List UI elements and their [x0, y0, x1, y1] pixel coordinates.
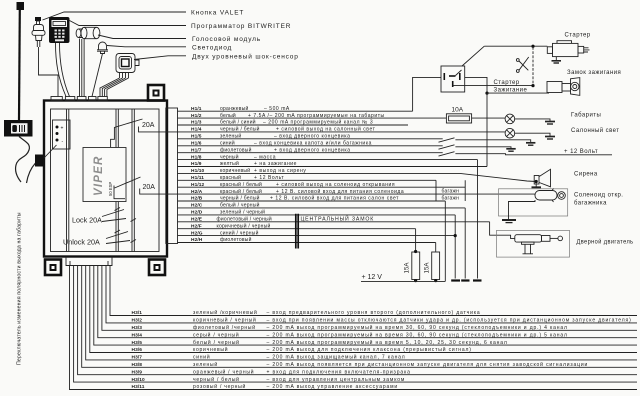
svg-text:красный / белый: красный / белый — [220, 188, 262, 195]
svg-text:– 200 mA выход программируемы: – 200 mA выход программируемый на время … — [267, 339, 508, 346]
node: fuse1 top — [414, 250, 417, 253]
cut wire (dashed) — [532, 47, 534, 85]
svg-text:H3/10: H3/10 — [132, 377, 146, 383]
svg-text:H3/8: H3/8 — [132, 362, 143, 368]
valet button — [32, 17, 45, 47]
door pin switch (H1/5) — [439, 138, 455, 142]
LED — [97, 42, 108, 54]
wire H2/E row line — [178, 221, 490, 223]
wire: starter feed line — [484, 45, 547, 47]
wire: relay starter contact line — [453, 85, 533, 87]
wire: H2/B down to +12 rail — [444, 201, 446, 281]
VIPER label plate — [83, 148, 126, 202]
node: H2/G tee — [454, 234, 457, 237]
svg-text:Стартер: Стартер — [494, 80, 520, 86]
fuse 20A no.1 callout — [111, 119, 178, 147]
scissors cut symbol — [516, 57, 528, 72]
svg-text:Кнопка VALET: Кнопка VALET — [191, 10, 244, 17]
wire H1/4 row line — [178, 131, 506, 133]
svg-text:+ вход для подключения включа: + вход для подключения включателя-призра… — [267, 369, 411, 375]
trunk solenoid cell divider — [436, 180, 465, 201]
svg-text:– вход для управления централ: – вход для управления центральным замком — [267, 377, 406, 383]
svg-text:VIPER: VIPER — [93, 155, 105, 196]
svg-text:– 500 mA: – 500 mA — [264, 106, 290, 112]
wire: solenoid to ground — [509, 200, 536, 220]
svg-text:H1/5: H1/5 — [191, 134, 202, 140]
svg-text:черный: черный — [220, 153, 239, 160]
main unit outer case — [44, 101, 167, 257]
svg-text:+ 12 В. силовой вход для пи: + 12 В. силовой вход для питания соленои… — [276, 188, 404, 195]
svg-text:Голосовой модуль: Голосовой модуль — [192, 35, 261, 43]
svg-text:H1/7: H1/7 — [191, 147, 202, 153]
svg-text:красный: красный — [220, 174, 241, 181]
wire H2/C row line — [178, 207, 466, 209]
svg-text:H3/9: H3/9 — [132, 369, 143, 375]
svg-text:– 200 mA выход появляется при: – 200 mA выход появляется при дистанцион… — [267, 361, 589, 368]
wire: side connector pigtail — [27, 163, 36, 183]
wire: H2/D to ground — [454, 215, 456, 279]
svg-text:H1/12: H1/12 — [191, 182, 205, 188]
wire: H1/5 switch to ground — [455, 140, 530, 143]
siren feed jog — [460, 173, 536, 181]
svg-text:красный / белый: красный / белый — [220, 181, 262, 188]
svg-text:Сирена: Сирена — [574, 172, 598, 178]
voice module — [76, 27, 100, 38]
ground: hood switch — [506, 149, 515, 151]
svg-text:H2/A: H2/A — [191, 189, 203, 195]
wire H3/2 — [106, 266, 637, 323]
svg-text:H2/B: H2/B — [191, 196, 203, 202]
wire: H2/E to door motor — [490, 222, 515, 239]
wire H2/D row line — [178, 214, 456, 216]
svg-text:+ на зажигание: + на зажигание — [254, 161, 297, 167]
svg-text:зеленый: зеленый — [193, 361, 218, 368]
wire: LED to H1 tab — [92, 54, 103, 97]
svg-text:Салонный свет: Салонный свет — [571, 127, 619, 134]
relay K1 — [441, 66, 465, 92]
callout line: Программатор BITWRITER — [70, 21, 187, 26]
svg-text:желтый: желтый — [220, 160, 239, 167]
wire H3/7 — [86, 266, 637, 360]
svg-text:20A: 20A — [142, 122, 155, 129]
svg-text:багажн: багажн — [442, 189, 460, 195]
wire: relay armature to starter feed — [462, 46, 484, 66]
wire H1/12 row line — [178, 186, 466, 188]
svg-text:+ 12 В. силовой вход для питан: + 12 В. силовой вход для питания салон с… — [270, 195, 399, 202]
node: fuse2 bottom — [434, 279, 437, 282]
wire: switch module pigtail — [16, 137, 30, 183]
svg-text:15A: 15A — [424, 262, 431, 274]
ground: bus 3 — [473, 279, 482, 281]
svg-text:коричневый / черный: коричневый / черный — [217, 222, 271, 229]
wire H2/H row line — [178, 242, 436, 244]
svg-text:Замок зажигания: Замок зажигания — [567, 70, 621, 76]
svg-text:багажн: багажн — [442, 196, 460, 202]
ground: door switch — [526, 143, 535, 145]
svg-text:H3/11: H3/11 — [132, 384, 145, 390]
svg-text:белый / черный: белый / черный — [220, 202, 260, 209]
wire H3/8 — [82, 266, 637, 368]
svg-text:10A: 10A — [452, 107, 464, 114]
svg-text:зеленый / черный: зеленый / черный — [220, 209, 265, 216]
svg-text:– 200 mA выход для подключени: – 200 mA выход для подключения клаксона … — [267, 346, 472, 353]
wire H2/B row line — [178, 200, 446, 202]
wire H3/9 — [78, 266, 637, 375]
svg-text:Светодиод: Светодиод — [192, 44, 232, 51]
trunk solenoid enclosure — [499, 189, 568, 216]
svg-text:H2/D: H2/D — [191, 210, 203, 216]
wire: H1/7 switch to +12V — [455, 154, 612, 155]
ground: parking lights — [545, 122, 555, 125]
lead from side connector into block — [44, 145, 57, 158]
wire H3/3 — [102, 266, 637, 331]
svg-text:+ 12 Вольт: + 12 Вольт — [254, 175, 284, 181]
wire: voice module to H1 tab — [80, 39, 85, 97]
svg-text:H2/G: H2/G — [191, 230, 203, 236]
svg-text:– масса: – масса — [254, 154, 276, 160]
svg-text:коричневый / черный: коричневый / черный — [193, 317, 257, 324]
svg-text:коричневый: коричневый — [193, 346, 228, 353]
H3 connector bottom edge — [66, 257, 112, 266]
svg-text:– 200 mA программируемый кан: – 200 mA программируемый канал № 3 — [263, 119, 373, 126]
wire: H1/8 ground drop — [477, 160, 479, 279]
svg-text:Габариты: Габариты — [571, 113, 601, 119]
svg-text:H3/3: H3/3 — [132, 325, 143, 331]
svg-text:зеленый: зеленый — [220, 133, 241, 140]
door motor enclosure — [497, 230, 570, 257]
wire: shock sensor to H1 tab — [100, 78, 129, 97]
wire: fuse 10A to parking lamp — [472, 117, 506, 119]
wire H1/8 row line — [178, 159, 478, 161]
wire: valet to H1 tab — [39, 47, 59, 97]
svg-text:Lock 20A: Lock 20A — [72, 216, 102, 225]
svg-text:H3/5: H3/5 — [132, 340, 143, 346]
svg-text:фиолетовый /черный: фиолетовый /черный — [193, 324, 256, 331]
lamp: parking lights — [505, 114, 515, 124]
svg-text:Двух уровневый шок-сенсор: Двух уровневый шок-сенсор — [192, 52, 299, 60]
BITWRITER programmer — [49, 17, 70, 43]
siren horn — [534, 169, 550, 187]
svg-text:H2/F: H2/F — [191, 223, 202, 229]
wire H3/10 — [74, 266, 637, 383]
wire H1/2 row line — [178, 117, 447, 119]
wire H3/6 — [90, 266, 637, 353]
ground: starter — [552, 57, 562, 63]
svg-text:H1/10: H1/10 — [191, 168, 205, 174]
svg-text:черный / белый: черный / белый — [220, 126, 260, 133]
Lock 20A fuse label — [72, 210, 126, 225]
mounting screw bottom-left — [45, 260, 61, 276]
wire H1/10 row line — [178, 172, 461, 174]
svg-text:15A: 15A — [404, 262, 411, 274]
internal power connector block — [53, 120, 71, 149]
svg-text:+ силовой выход на соленоид: + силовой выход на соленоид открывания — [276, 181, 395, 188]
antenna — [17, 2, 25, 121]
svg-text:+ вход дверного концевика: + вход дверного концевика — [274, 147, 351, 153]
svg-text:синий / черный: синий / черный — [220, 229, 259, 236]
svg-text:синий: синий — [193, 354, 210, 361]
svg-text:H1/9: H1/9 — [191, 161, 202, 167]
svg-text:+ силовой выход на салонный св: + силовой выход на салонный свет — [276, 126, 376, 133]
svg-text:черный / белый: черный / белый — [193, 376, 240, 383]
svg-text:H3/4: H3/4 — [132, 332, 143, 338]
H1 connector tabs on top edge — [51, 97, 62, 101]
svg-text:коричневый: коричневый — [220, 167, 250, 174]
door motor actuator — [515, 235, 563, 254]
node: fuse1 bottom — [414, 279, 417, 282]
svg-text:– 200 mA выход программируемы: – 200 mA выход программируемый на время … — [267, 324, 568, 331]
central lock connector bars — [296, 214, 298, 249]
svg-text:H1/8: H1/8 — [191, 154, 202, 160]
svg-text:– 200 mA выход управление акс: – 200 mA выход управление аксессуарами — [267, 384, 399, 390]
wire: relay to ignition branch — [465, 77, 487, 93]
svg-text:зеленый /коричневый: зеленый /коричневый — [193, 309, 258, 316]
wire H1/3 row line — [178, 124, 409, 126]
wire: lamp to ground — [515, 119, 550, 122]
wire: ignition line to lock — [487, 92, 549, 94]
svg-text:– вход предварительного уровн: – вход предварительного уровня второго (… — [267, 310, 481, 316]
svg-text:H1/11: H1/11 — [191, 175, 204, 181]
wire H1/11 row line — [178, 179, 437, 181]
svg-text:ЦЕНТРАЛЬНЫЙ ЗАМОК: ЦЕНТРАЛЬНЫЙ ЗАМОК — [301, 215, 375, 223]
svg-text:Соленоид откр.: Соленоид откр. — [574, 193, 623, 199]
mounting screw bottom-right — [149, 260, 165, 276]
lamp: interior light — [505, 128, 515, 138]
svg-text:– вход дверного концевика: – вход дверного концевика — [274, 134, 350, 140]
starter motor M1 — [547, 41, 589, 57]
wire H2/F row line — [178, 228, 416, 230]
fuse 15A no.2 — [424, 252, 440, 280]
svg-text:H3/1: H3/1 — [132, 310, 143, 316]
ground: bus 2 — [461, 279, 469, 281]
fuse 10A — [446, 107, 471, 124]
polarity switch module — [4, 120, 33, 137]
svg-text:оранжевый: оранжевый — [220, 105, 249, 112]
svg-text:Переключатель изменения полярн: Переключатель изменения полярности выход… — [17, 212, 23, 365]
trunk solenoid body — [535, 189, 565, 203]
callout line: Кнопка VALET — [43, 12, 187, 20]
wire H3/5 — [94, 266, 637, 346]
fuse 15A no.1 — [404, 252, 420, 280]
svg-text:фиолетовый / черный: фиолетовый / черный — [217, 216, 272, 223]
main unit inner frame — [51, 109, 160, 252]
svg-text:серый / черный: серый / черный — [193, 331, 239, 338]
svg-text:фиолетовый: фиолетовый — [220, 236, 252, 243]
+12V rail — [361, 280, 445, 282]
svg-text:Стартер: Стартер — [565, 33, 591, 39]
svg-text:+ 12 V: + 12 V — [362, 274, 383, 281]
wire H2/A row line — [178, 193, 500, 195]
ground: solenoid — [502, 220, 516, 223]
svg-text:H2/H: H2/H — [191, 237, 203, 243]
shock sensor — [116, 54, 139, 73]
wire: H2/H to fuse 15A no.2 — [435, 243, 437, 252]
svg-text:– 200 mA выход защищаемый кан: – 200 mA выход защищаемый канал, 7 канал — [267, 354, 406, 361]
svg-text:H3/7: H3/7 — [132, 355, 143, 361]
node: ignition junction — [485, 92, 488, 95]
svg-text:H3/2: H3/2 — [132, 318, 143, 324]
svg-text:+ выход на сирену: + выход на сирену — [254, 168, 306, 174]
ground: bus 1 — [451, 279, 460, 281]
internal rail lines — [67, 109, 135, 252]
Unlock 20A fuse label — [63, 232, 130, 247]
svg-text:белый: белый — [220, 112, 236, 119]
svg-text:H1/2: H1/2 — [191, 113, 202, 119]
wire: H2/C to ground — [464, 208, 466, 279]
svg-text:+ 12 Вольт: + 12 Вольт — [564, 149, 598, 155]
svg-text:фиолетовый: фиолетовый — [220, 146, 252, 153]
svg-text:H1/4: H1/4 — [191, 127, 202, 133]
wire H1/1 row line — [178, 110, 413, 112]
wire H1/7 row line — [178, 152, 443, 154]
svg-text:багажника: багажника — [574, 201, 607, 207]
ground: siren — [532, 183, 542, 187]
svg-text:Дверной двигатель: Дверной двигатель — [577, 239, 634, 246]
wire H3/1 — [110, 266, 637, 316]
callout line: Светодиод — [107, 46, 186, 47]
svg-text:белый / черный: белый / черный — [193, 339, 240, 346]
wire: solenoid feed inside enclosure — [499, 194, 535, 195]
side connector on main unit — [35, 155, 43, 167]
wire H1/9 row line — [178, 166, 488, 168]
svg-text:+: + — [61, 126, 64, 132]
wire: ignition feed down to H1/9 — [486, 93, 488, 166]
ground: interior light — [545, 137, 555, 140]
svg-text:Программатор BITWRITER: Программатор BITWRITER — [191, 23, 291, 30]
svg-text:розовый / черный: розовый / черный — [193, 383, 246, 390]
wire H3/11 — [70, 266, 638, 390]
wire H2/G row line — [178, 235, 456, 237]
svg-text:черный / белый: черный / белый — [220, 195, 260, 202]
fuse 20A no.2 callout — [114, 177, 178, 199]
mounting screw top-right — [148, 85, 164, 101]
svg-text:Unlock 20A: Unlock 20A — [63, 238, 100, 247]
svg-text:– вход концевика капота и/или: – вход концевика капота и/или багажника — [254, 140, 372, 146]
wire: relay coil to H1/1 — [413, 77, 441, 111]
node: starter cut junction upper — [531, 45, 534, 48]
ignition lock S1 — [547, 78, 580, 96]
svg-text:синий: синий — [220, 139, 235, 146]
svg-text:– вход при появлении массы о: – вход при появлении массы отключаются д… — [267, 318, 632, 324]
svg-text:50 ESP: 50 ESP — [108, 182, 113, 196]
svg-text:H2/E: H2/E — [191, 217, 203, 223]
node: siren terminal — [535, 180, 538, 183]
wire: bitwriter to H1 tab — [56, 43, 70, 97]
svg-text:+ 7.5A /– 200 mA программиру: + 7.5A /– 200 mA программируемые на габа… — [248, 113, 385, 119]
wire: interior lamp to ground — [515, 133, 550, 136]
door pin switch (H1/7) — [439, 152, 455, 156]
shock sensor pins — [120, 73, 129, 79]
svg-text:белый / синий: белый / синий — [220, 119, 256, 126]
svg-text:20A: 20A — [143, 184, 156, 191]
svg-text:H3/6: H3/6 — [132, 347, 143, 353]
callout line: Голосовой модуль — [98, 35, 186, 39]
wire: fuse1 bottom to rail — [415, 280, 417, 282]
wire H1/5 row line — [178, 138, 443, 140]
wire H3/4 — [98, 266, 637, 338]
svg-text:H2/C: H2/C — [191, 203, 203, 209]
wire: H1/6 switch to ground — [455, 147, 511, 149]
svg-text:– 200 mA выход программируемы: – 200 mA выход программируемый на время … — [267, 331, 568, 338]
svg-text:H1/3: H1/3 — [191, 120, 202, 126]
hood/trunk pin switch (H1/6) — [439, 145, 455, 149]
H1/H2 connector tab right edge — [166, 108, 178, 244]
wire H1/6 row line — [178, 145, 443, 147]
svg-text:Зажигание: Зажигание — [494, 88, 528, 94]
svg-text:оранжевый / черный: оранжевый / черный — [193, 368, 254, 375]
wire: H2/F to fuse 15A no.1 — [415, 229, 417, 252]
node: starter cut junction lower — [531, 84, 534, 87]
callout line: Двух уровневый шок-сенсор — [134, 56, 186, 60]
svg-text:H1/6: H1/6 — [191, 140, 202, 146]
fuse elements on rails — [115, 208, 137, 243]
svg-text:H1/1: H1/1 — [191, 106, 202, 112]
